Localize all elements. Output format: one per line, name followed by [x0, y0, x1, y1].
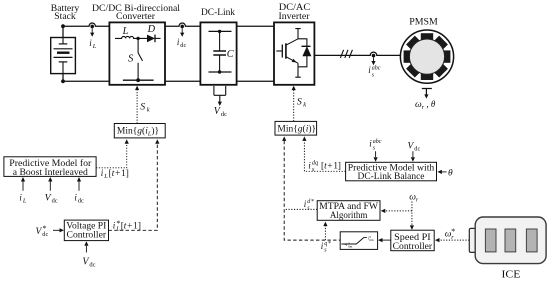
svg-text:S: S: [128, 52, 134, 64]
svg-text:DC-Link Balance: DC-Link Balance: [358, 172, 425, 182]
svg-text:dc: dc: [414, 146, 420, 153]
svg-text:[t + 1]: [t + 1]: [109, 169, 129, 179]
svg-text:C: C: [227, 49, 234, 60]
svg-text:lim: lim: [369, 238, 374, 242]
svg-text:[t + 1]: [t + 1]: [121, 221, 141, 231]
svg-text:S: S: [297, 97, 302, 108]
svg-text:Controller: Controller: [67, 231, 107, 241]
svg-text:D: D: [147, 24, 156, 35]
svg-text:, θ: , θ: [425, 99, 436, 109]
svg-text:θ: θ: [448, 168, 453, 178]
svg-text:s: s: [307, 205, 310, 211]
svg-text:dc: dc: [221, 111, 227, 118]
svg-text:Converter: Converter: [116, 11, 155, 21]
svg-text:lim: lim: [348, 245, 353, 249]
svg-text:k: k: [303, 102, 306, 109]
svg-text:L: L: [122, 26, 129, 37]
svg-text:k: k: [147, 106, 150, 113]
svg-text:Algorithm: Algorithm: [330, 211, 368, 221]
svg-text:Controller: Controller: [393, 242, 433, 252]
svg-text:dc: dc: [180, 42, 186, 49]
svg-text:L: L: [115, 226, 120, 233]
svg-text:L: L: [22, 197, 27, 204]
svg-text:dc: dc: [52, 198, 58, 205]
svg-text:abc: abc: [373, 139, 382, 145]
svg-text:V: V: [45, 193, 52, 204]
svg-text:S: S: [140, 101, 145, 112]
svg-text:d *: d *: [307, 199, 314, 205]
svg-text:s: s: [324, 247, 327, 253]
svg-text:abc: abc: [372, 66, 381, 72]
svg-text:dc: dc: [78, 197, 84, 204]
svg-text:L: L: [103, 173, 108, 180]
svg-text:Inverter: Inverter: [279, 11, 310, 21]
svg-text:Min{g(i)}: Min{g(i)}: [277, 123, 316, 134]
svg-text:i: i: [368, 65, 371, 75]
svg-text:dc: dc: [42, 231, 48, 238]
svg-text:dc: dc: [89, 261, 95, 268]
svg-text:ICE: ICE: [502, 269, 521, 280]
svg-text:L: L: [92, 43, 97, 50]
svg-text:Min{g(iL)}: Min{g(iL)}: [117, 126, 159, 138]
svg-text:r: r: [416, 197, 419, 204]
svg-text:i: i: [308, 161, 311, 171]
svg-text:a Boost Interleaved: a Boost Interleaved: [13, 168, 88, 178]
svg-text:Stack: Stack: [54, 11, 76, 21]
svg-text:DC-Link: DC-Link: [201, 7, 236, 17]
svg-text:[t + 1]: [t + 1]: [321, 161, 341, 171]
svg-text:q *: q *: [324, 241, 331, 247]
svg-text:PMSM: PMSM: [409, 17, 438, 27]
svg-text:s: s: [372, 72, 375, 78]
svg-text:s: s: [373, 145, 376, 151]
